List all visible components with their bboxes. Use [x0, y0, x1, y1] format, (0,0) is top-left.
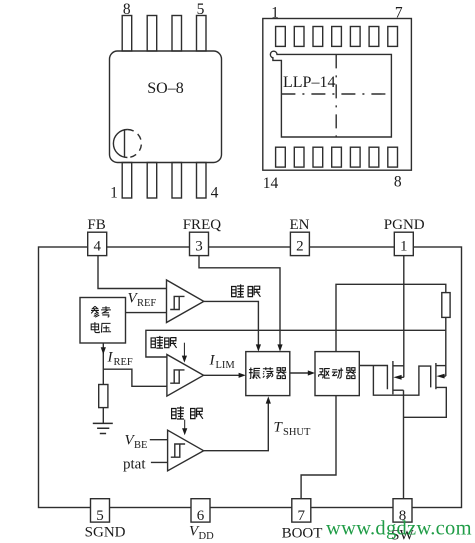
wire IREF branch to comparator U2 lower input: [103, 369, 167, 386]
svg-text:1: 1: [110, 185, 118, 202]
arrow into oscillator top from sleep wire: [256, 344, 261, 351]
svg-text:REF: REF: [114, 357, 133, 368]
transistor Q2 drain stub: [436, 365, 446, 367]
pin box 4 (FB): [88, 232, 107, 255]
svg-text:FB: FB: [87, 217, 105, 233]
wire FB pin4 to comparator U1 upper input: [98, 256, 167, 289]
driver block: [315, 352, 359, 396]
transistor Q1 gate lead and gate plate: [359, 366, 387, 390]
wire SW: Q1 source down to pin 8: [403, 390, 405, 499]
svg-text:EN: EN: [290, 217, 310, 233]
SO-8 pin 8 lead (top): [122, 16, 132, 52]
transistor Q1 channel bar: [392, 361, 394, 394]
hysteresis symbol U1: [170, 296, 184, 309]
wire FREQ pin3 to oscillator top: [199, 256, 280, 345]
label 睡眠 (sleep) at U3: [172, 406, 184, 419]
SO-8 pin 1 lead (bottom): [122, 163, 132, 199]
arrow IREF downward on wire: [101, 347, 106, 354]
svg-text:I: I: [107, 350, 114, 366]
svg-text:7: 7: [298, 508, 306, 524]
LLP-14 exposed pad with pin-1 notch: [270, 51, 391, 137]
svg-text:SGND: SGND: [85, 525, 126, 541]
arrow TSHUT into oscillator bottom: [266, 396, 271, 403]
pin box 8 (SW): [393, 499, 412, 522]
wire TSHUT: U3 output up to oscillator bottom: [204, 403, 269, 451]
comparator U1 (VREF sleep comparator): [167, 280, 204, 323]
hysteresis symbol U2: [170, 370, 184, 383]
arrow ILIM into oscillator left: [239, 373, 246, 378]
arrow into oscillator top from FREQ wire: [277, 344, 282, 351]
transistor Q2 body arrow: [436, 374, 444, 379]
pin box 5 (SGND): [91, 499, 110, 522]
transistor Q1 source stub: [393, 389, 404, 391]
sleep net: comparator U2 enable elbow to resistor R2 bottom: [146, 330, 446, 357]
arrowheads: [101, 343, 445, 436]
label 振荡器 (oscillator): [249, 367, 286, 379]
pin box 2 (EN): [290, 232, 309, 255]
svg-text:PGND: PGND: [384, 217, 425, 233]
svg-text:7: 7: [395, 5, 403, 22]
resistor R1: [99, 385, 108, 408]
svg-text:4: 4: [93, 239, 101, 255]
svg-text:3: 3: [195, 239, 203, 255]
LLP-14 bottom pads (pins 8-14): [276, 147, 286, 167]
svg-text:FREQ: FREQ: [183, 217, 222, 233]
LLP-14 horizontal center line: [281, 93, 391, 95]
svg-text:5: 5: [197, 1, 205, 18]
svg-text:DD: DD: [199, 531, 215, 542]
wire IREF: reference block to resistor R1: [102, 343, 104, 385]
wire ILIM: U2 output to oscillator left: [204, 374, 240, 376]
wire gate net to transistor Q2 gate plate: [373, 366, 430, 396]
svg-text:8: 8: [123, 1, 131, 18]
transistor Q1 body arrow: [393, 375, 401, 380]
svg-text:SHUT: SHUT: [283, 427, 311, 438]
sleep arrow line U3: [184, 420, 185, 430]
svg-text:4: 4: [211, 185, 219, 202]
SO-8 pin 2 lead (bottom): [147, 163, 157, 199]
svg-text:REF: REF: [137, 298, 156, 309]
oscillator block: [246, 352, 290, 396]
pin box 6 (VDD): [191, 499, 210, 522]
wire R2 bottom to Q2 drain: [445, 317, 447, 376]
svg-text:1: 1: [400, 239, 408, 255]
transistor Q2 source wrap to SW node: [404, 387, 447, 417]
wire driver top to resistor R2: [336, 284, 446, 351]
sleep arrow into comparator U2: [182, 356, 187, 363]
transistor Q2 channel bar: [435, 363, 437, 389]
wire VBE input: [150, 439, 168, 441]
wire oscillator to driver: [290, 372, 309, 374]
SO-8 body: [110, 51, 222, 163]
wire PGND pin1 down to Q1 drain/body: [403, 256, 405, 378]
ground symbol: [93, 423, 113, 433]
SO-8 pin 4 lead (bottom): [197, 163, 207, 199]
SO-8 pin 7 lead (top): [147, 16, 157, 52]
IC boundary rectangle: [39, 247, 462, 508]
label 睡眠 (sleep) at U2: [151, 336, 177, 348]
resistor R2: [442, 293, 450, 318]
svg-text:SO–8: SO–8: [147, 80, 183, 97]
pin box 3 (FREQ): [190, 232, 209, 255]
svg-text:BE: BE: [134, 440, 147, 451]
LLP-14 top pads (pins 1-7): [276, 27, 286, 47]
comparator U2 (current limit): [167, 355, 204, 397]
comparator U3 (VBE/ptat thermal): [168, 430, 204, 471]
svg-text:LIM: LIM: [216, 360, 236, 371]
sleep arrow line U2: [184, 343, 185, 357]
LLP-14 vertical center line: [335, 54, 337, 137]
reference voltage block: [80, 298, 126, 344]
transistor Q2 body lead: [442, 375, 446, 377]
wire U1 output (sleep) to oscillator top: [204, 301, 259, 344]
wire reference block to comparator U1 lower input: [126, 312, 167, 314]
wire R1 to ground: [102, 408, 104, 424]
svg-text:8: 8: [394, 174, 402, 191]
svg-text:www.dgdzw.com: www.dgdzw.com: [326, 518, 472, 540]
wire BOOT: driver bottom to pin 7: [301, 396, 336, 499]
svg-text:14: 14: [263, 175, 279, 192]
svg-text:2: 2: [296, 239, 304, 255]
svg-text:BOOT: BOOT: [282, 526, 323, 542]
sleep arrow into comparator U3: [182, 428, 187, 435]
pin box 7 (BOOT): [292, 499, 311, 522]
SO-8 pin1 indicator circle: [113, 130, 127, 158]
svg-text:5: 5: [96, 508, 104, 524]
SO-8 pin 3 lead (bottom): [172, 163, 182, 199]
svg-text:I: I: [209, 353, 216, 369]
transistor Q1 body lead: [400, 376, 404, 378]
pin box 1 (PGND): [394, 232, 413, 255]
wire ptat input: [151, 461, 168, 463]
svg-text:1: 1: [271, 5, 279, 22]
arrow oscillator to driver: [308, 370, 315, 375]
svg-text:ptat: ptat: [123, 457, 146, 473]
SO-8 pin 6 lead (top): [172, 16, 182, 52]
transistor Q1 drain stub: [393, 365, 404, 367]
svg-text:LLP–14: LLP–14: [283, 74, 335, 91]
LLP-14 outer body: [263, 19, 412, 171]
label 睡眠 (sleep) at U1 output: [232, 284, 244, 297]
label 参考电压 (reference voltage) in block: [91, 306, 111, 317]
label 驱动器 (driver): [319, 368, 356, 379]
svg-text:6: 6: [197, 508, 205, 524]
SO-8 pin 5 lead (top): [197, 16, 207, 52]
hysteresis symbol U3: [171, 444, 185, 457]
